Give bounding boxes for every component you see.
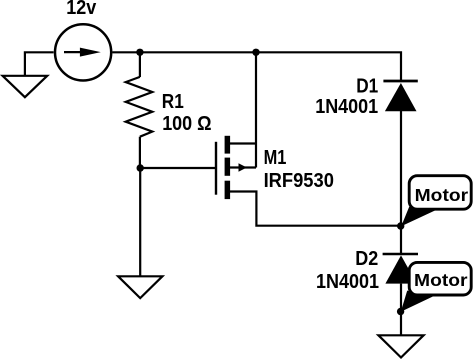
transistor M1 channel top bar <box>225 136 231 154</box>
transistor M1 channel bottom bar <box>225 181 231 199</box>
wire: R1 to node B <box>139 137 141 168</box>
source V1 (current-arrow circle) <box>55 24 111 80</box>
resistor R1 <box>126 77 153 137</box>
diode D1 cathode bar <box>383 80 417 83</box>
transistor M1 channel middle bar <box>225 158 231 176</box>
wire: M1 source up to top rail <box>255 52 257 167</box>
diode D2 cathode bar <box>383 253 418 256</box>
ground (middle) <box>118 276 162 298</box>
diode D1 triangle <box>385 83 417 111</box>
node B junction dot <box>137 164 144 171</box>
diode D2 triangle <box>385 255 416 283</box>
wire: D2 to ground <box>400 284 402 335</box>
wire: node B to gate <box>140 167 215 169</box>
svg-text:1N4001: 1N4001 <box>315 96 378 118</box>
motor callout 2 tail <box>401 291 436 312</box>
svg-text:IRF9530: IRF9530 <box>264 170 334 192</box>
node D junction dot <box>397 222 404 229</box>
wire: node D to D2 <box>400 226 402 254</box>
motor callout 1 box <box>409 176 471 210</box>
M1 body lead with arrow <box>230 163 256 171</box>
svg-text:100 Ω: 100 Ω <box>162 113 211 135</box>
motor callout 1 tail <box>401 207 435 227</box>
wire: D1 to node D <box>400 111 402 226</box>
svg-text:Motor: Motor <box>414 270 468 290</box>
svg-text:R1: R1 <box>162 91 184 113</box>
svg-text:D2: D2 <box>355 248 378 270</box>
node E junction dot <box>397 308 404 315</box>
ground (left) <box>3 76 48 97</box>
svg-text:Motor: Motor <box>415 185 469 205</box>
wire: node A down to R1 <box>139 52 141 77</box>
svg-text:D1: D1 <box>356 76 378 98</box>
svg-text:M1: M1 <box>264 147 287 169</box>
motor callout 2 box <box>409 262 471 295</box>
wire: source left to ground <box>25 52 54 76</box>
node A junction dot <box>136 49 143 56</box>
svg-text:12v: 12v <box>66 0 97 19</box>
node C junction dot <box>252 49 259 56</box>
wire: M1 drain lead to node D <box>230 192 401 226</box>
transistor M1 gate bar <box>215 142 217 195</box>
wire: M1 source lead <box>230 142 256 144</box>
wire: node B down to ground <box>139 168 141 276</box>
ground (right) <box>378 335 423 357</box>
wire: top rail <box>112 52 401 81</box>
source arrow <box>64 48 101 57</box>
svg-text:1N4001: 1N4001 <box>316 271 379 293</box>
